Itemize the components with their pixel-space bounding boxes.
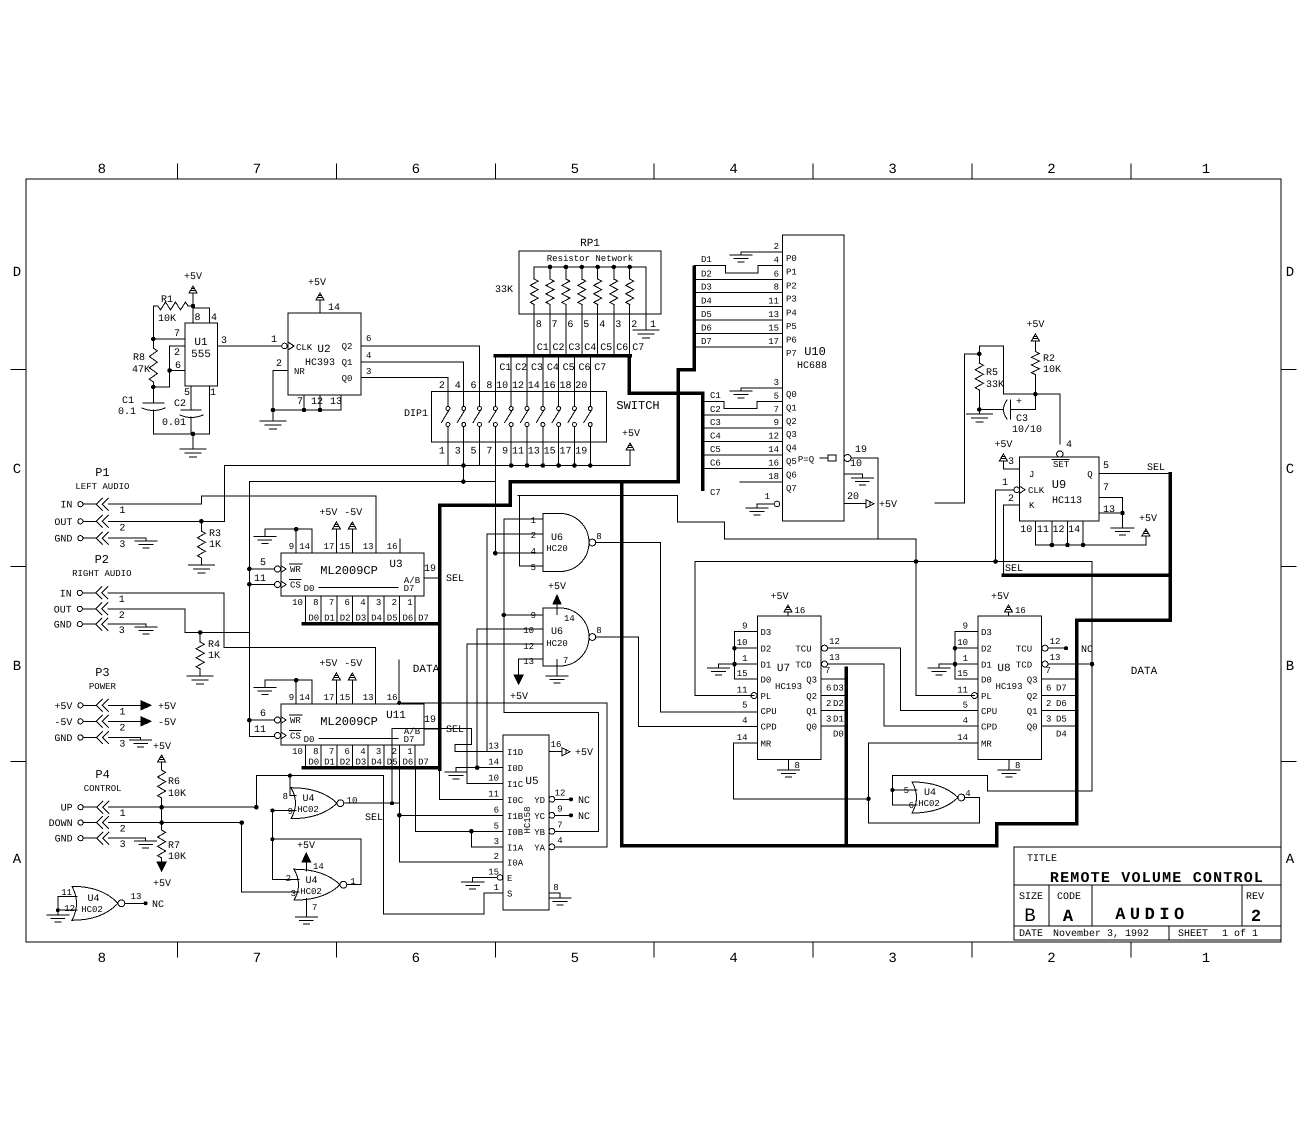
svg-text:5: 5 — [583, 320, 589, 331]
svg-text:P4: P4 — [786, 308, 797, 318]
RP1 resistor 6 — [612, 265, 617, 270]
svg-text:HC158: HC158 — [523, 806, 533, 833]
svg-text:19: 19 — [855, 445, 867, 456]
svg-text:D3: D3 — [833, 684, 844, 694]
svg-text:+5V: +5V — [1139, 514, 1157, 525]
svg-text:Resistor Network: Resistor Network — [547, 254, 633, 264]
svg-text:14: 14 — [313, 862, 324, 872]
wire U4c input from CLK net — [892, 775, 987, 777]
svg-text:10/10: 10/10 — [1012, 424, 1042, 436]
svg-text:7: 7 — [329, 747, 334, 757]
svg-text:10: 10 — [496, 381, 508, 392]
wire gate B pin2 — [272, 878, 299, 880]
svg-text:P1: P1 — [786, 268, 797, 278]
wire P1 OUT — [108, 520, 224, 522]
svg-text:15: 15 — [339, 693, 350, 703]
svg-text:P3: P3 — [95, 666, 109, 680]
svg-text:D2: D2 — [833, 699, 844, 709]
svg-text:0.1: 0.1 — [118, 407, 136, 418]
svg-text:D3: D3 — [701, 283, 712, 293]
svg-text:Q3: Q3 — [1027, 676, 1038, 686]
svg-text:6: 6 — [567, 320, 573, 331]
svg-text:16: 16 — [387, 542, 398, 552]
svg-text:D1: D1 — [833, 715, 844, 725]
thick U3 data bus — [303, 622, 440, 626]
svg-text:-5V: -5V — [344, 659, 362, 670]
svg-text:1: 1 — [210, 388, 216, 399]
svg-text:15: 15 — [768, 324, 779, 334]
svg-text:D7: D7 — [404, 735, 415, 745]
svg-text:7: 7 — [557, 820, 562, 830]
wire C7 row — [740, 481, 760, 483]
svg-text:7: 7 — [297, 397, 303, 408]
gate U4 latch B NOR — [294, 869, 340, 900]
svg-text:10K: 10K — [158, 314, 176, 325]
capacitor C2 — [190, 386, 192, 410]
ground RP1 pin1 — [633, 329, 659, 331]
svg-text:SEL: SEL — [446, 574, 464, 585]
svg-text:13: 13 — [1050, 653, 1061, 663]
wire U1 pin4 stub — [209, 308, 211, 323]
svg-text:R3: R3 — [209, 529, 221, 540]
svg-text:LEFT AUDIO: LEFT AUDIO — [75, 482, 129, 492]
svg-text:1: 1 — [963, 654, 968, 664]
svg-text:C2: C2 — [710, 405, 721, 415]
RP1 pin1 wire — [645, 267, 647, 322]
junction C2 bottom — [191, 432, 196, 437]
svg-text:-5V: -5V — [344, 508, 362, 519]
svg-text:4: 4 — [742, 716, 747, 726]
svg-text:P0: P0 — [786, 254, 797, 264]
svg-text:13: 13 — [363, 693, 374, 703]
svg-text:CS: CS — [290, 732, 301, 742]
svg-text:47K: 47K — [132, 365, 150, 376]
svg-text:6: 6 — [471, 381, 477, 392]
svg-text:6: 6 — [494, 805, 499, 815]
svg-text:+5V: +5V — [770, 592, 788, 603]
svg-text:1: 1 — [531, 516, 536, 526]
U2 pin13 stub — [340, 395, 342, 410]
svg-text:20: 20 — [575, 381, 587, 392]
wire U10 pin19 net — [877, 458, 879, 539]
svg-text:5: 5 — [184, 388, 190, 399]
svg-text:D2: D2 — [340, 758, 351, 768]
svg-text:R7: R7 — [168, 841, 180, 852]
thick bus horizontal y620 — [1077, 618, 1171, 622]
svg-text:14: 14 — [768, 445, 779, 455]
svg-text:I1C: I1C — [507, 780, 524, 790]
svg-text:C4: C4 — [547, 363, 559, 374]
ground under U1 — [192, 434, 194, 449]
wire WR CS net horizontal — [249, 481, 495, 483]
svg-text:1: 1 — [494, 883, 499, 893]
svg-text:9: 9 — [289, 693, 294, 703]
wire U4c output loop to MR — [966, 797, 980, 799]
wire U5 YA up — [555, 846, 607, 848]
svg-text:10K: 10K — [1043, 365, 1061, 376]
svg-text:6: 6 — [909, 801, 914, 811]
RP1 resistor 5 — [595, 265, 600, 270]
svg-text:SEL: SEL — [365, 813, 383, 824]
wire U6a pin2 — [487, 533, 543, 535]
svg-text:D0: D0 — [308, 614, 319, 624]
svg-text:HC193: HC193 — [775, 682, 802, 692]
svg-text:2: 2 — [774, 242, 779, 252]
svg-text:U10: U10 — [804, 345, 826, 359]
DIP1 switch 10 — [589, 356, 591, 392]
ground P4 — [135, 840, 157, 842]
svg-text:11: 11 — [512, 447, 524, 458]
RP1 resistor 3 — [564, 265, 569, 270]
svg-text:14: 14 — [299, 693, 310, 703]
svg-text:HC193: HC193 — [995, 682, 1022, 692]
svg-text:19: 19 — [575, 447, 587, 458]
svg-text:10K: 10K — [168, 789, 186, 800]
svg-text:Q1: Q1 — [786, 403, 797, 413]
svg-text:K: K — [1029, 501, 1035, 511]
svg-text:7: 7 — [312, 903, 317, 913]
mux U5 HC158 box — [503, 735, 549, 910]
svg-text:+5V: +5V — [879, 500, 897, 511]
svg-text:8: 8 — [194, 313, 200, 324]
DIP1 switch 3 — [479, 346, 481, 392]
svg-text:D2: D2 — [761, 645, 772, 655]
svg-text:R6: R6 — [168, 777, 180, 788]
junction R3 top — [199, 519, 204, 524]
resistor R3 — [200, 521, 202, 531]
U5 E bubble — [497, 875, 503, 881]
svg-text:9: 9 — [531, 611, 536, 621]
svg-text:RIGHT AUDIO: RIGHT AUDIO — [72, 569, 131, 579]
thick bus vertical x678 — [676, 370, 680, 482]
svg-text:TCU: TCU — [795, 645, 811, 655]
svg-text:2: 2 — [276, 359, 282, 370]
power -5V U3 pin15 — [351, 529, 353, 553]
svg-text:13: 13 — [363, 542, 374, 552]
ground P1 — [135, 540, 157, 542]
wire U11 pin16 net — [398, 660, 400, 704]
svg-text:3: 3 — [774, 378, 779, 388]
svg-text:U6: U6 — [551, 533, 563, 544]
svg-text:11: 11 — [1037, 525, 1049, 536]
junction U1 pin8 node — [191, 304, 196, 309]
capacitor C3 — [1004, 400, 1008, 419]
svg-text:12: 12 — [311, 397, 323, 408]
svg-text:Q: Q — [1087, 470, 1092, 480]
svg-text:16: 16 — [1015, 606, 1026, 616]
DIP1 switch 7 — [542, 356, 544, 392]
U3 WR bubble — [275, 566, 281, 572]
svg-text:C2: C2 — [174, 399, 186, 410]
svg-text:D1: D1 — [761, 661, 772, 671]
svg-text:D2: D2 — [340, 614, 351, 624]
resistor R1 — [153, 305, 158, 307]
wire U2 ground rail — [273, 409, 341, 411]
svg-text:D2: D2 — [981, 645, 992, 655]
gate U4 latch A NOR — [291, 788, 337, 819]
svg-text:+5V: +5V — [510, 692, 528, 703]
wire P4 DOWN row — [109, 822, 242, 824]
U3 A/B pin19 stub — [424, 577, 440, 579]
wire staircase down to PL net — [878, 538, 916, 540]
svg-text:OUT: OUT — [54, 518, 72, 529]
svg-text:5: 5 — [963, 701, 968, 711]
svg-text:10: 10 — [737, 638, 748, 648]
svg-text:2: 2 — [1008, 494, 1014, 505]
svg-text:NC: NC — [152, 900, 164, 911]
svg-text:5: 5 — [471, 447, 477, 458]
svg-text:U3: U3 — [389, 559, 402, 571]
svg-text:4: 4 — [557, 836, 562, 846]
svg-text:4: 4 — [729, 162, 737, 178]
svg-text:12: 12 — [768, 432, 779, 442]
wire U5 E ground — [473, 877, 497, 879]
wire P1 OUT up to rail — [224, 466, 226, 522]
svg-text:4: 4 — [360, 598, 365, 608]
counter U7 HC193 box — [758, 616, 822, 760]
RP1 common bus — [534, 266, 646, 268]
svg-text:-5V: -5V — [158, 718, 176, 729]
svg-text:5: 5 — [742, 701, 747, 711]
svg-text:+5V: +5V — [575, 748, 593, 759]
svg-text:R8: R8 — [133, 353, 145, 364]
svg-text:8: 8 — [596, 532, 601, 542]
svg-text:4: 4 — [729, 951, 737, 967]
svg-text:C3: C3 — [1016, 414, 1028, 425]
svg-text:10: 10 — [347, 796, 358, 806]
svg-text:NC: NC — [1081, 645, 1093, 656]
svg-text:C3: C3 — [710, 418, 721, 428]
DIP1 switch 4 — [494, 356, 496, 392]
svg-text:+5V: +5V — [622, 429, 640, 440]
svg-text:B: B — [1286, 659, 1294, 675]
arrow R7 to +5V — [157, 862, 166, 871]
ground U9 pin13 — [1122, 513, 1124, 528]
junction R4 top — [198, 630, 203, 635]
junction MR net — [866, 797, 871, 802]
svg-text:14: 14 — [528, 381, 540, 392]
border column ticks top — [177, 164, 179, 179]
svg-text:16: 16 — [768, 458, 779, 468]
svg-text:D7: D7 — [701, 337, 712, 347]
svg-text:3: 3 — [119, 540, 125, 551]
svg-text:Q0: Q0 — [1027, 722, 1038, 732]
svg-text:YD: YD — [534, 796, 545, 806]
svg-text:3: 3 — [494, 837, 499, 847]
svg-text:1: 1 — [1002, 478, 1008, 489]
svg-text:4: 4 — [211, 313, 217, 324]
svg-text:Q3: Q3 — [806, 676, 817, 686]
svg-text:6: 6 — [412, 951, 420, 967]
svg-text:16: 16 — [795, 606, 806, 616]
wire DOWN to gate B pin3 — [239, 820, 244, 825]
svg-text:16: 16 — [387, 693, 398, 703]
RP1 resistor 4 — [580, 265, 585, 270]
svg-text:11: 11 — [957, 686, 968, 696]
svg-text:I1A: I1A — [507, 843, 524, 853]
wire U4c inputs — [892, 789, 917, 791]
svg-text:UP: UP — [61, 804, 73, 815]
svg-text:CS: CS — [290, 581, 301, 591]
junction NR rail — [271, 408, 276, 413]
svg-text:7: 7 — [486, 447, 492, 458]
thick bus C-column vertical — [701, 393, 705, 489]
power +5V U11 pin17 — [335, 680, 337, 704]
svg-text:S: S — [507, 890, 512, 900]
wire D1 row step — [694, 265, 725, 267]
svg-text:ML2009CP: ML2009CP — [320, 564, 378, 578]
svg-text:6: 6 — [260, 709, 266, 720]
svg-text:DATA: DATA — [413, 664, 440, 676]
svg-text:12: 12 — [1050, 637, 1061, 647]
svg-text:SIZE: SIZE — [1019, 892, 1043, 903]
svg-text:D7: D7 — [418, 758, 429, 768]
thick bus down from RP1 bus — [627, 356, 631, 394]
svg-text:SEL: SEL — [1005, 564, 1023, 575]
resistor R2 — [1034, 341, 1036, 352]
svg-text:2: 2 — [120, 825, 126, 836]
svg-text:HC688: HC688 — [797, 361, 827, 372]
svg-text:1: 1 — [1202, 162, 1210, 178]
wire R1 left to pin7 — [152, 306, 154, 339]
gate U4 pin13 NOR — [72, 886, 118, 920]
U10 G enable pin1 — [774, 501, 780, 507]
border frame — [26, 179, 1281, 942]
svg-text:C6: C6 — [616, 343, 628, 354]
U3 CS bubble — [275, 582, 281, 588]
svg-text:3: 3 — [120, 840, 126, 851]
svg-text:C1: C1 — [537, 343, 549, 354]
svg-text:P7: P7 — [786, 349, 797, 359]
svg-text:MR: MR — [981, 740, 992, 750]
svg-text:14: 14 — [488, 758, 499, 768]
junction R5 bottom — [977, 407, 982, 412]
svg-text:C1: C1 — [122, 396, 134, 407]
svg-text:14: 14 — [1068, 525, 1080, 536]
svg-text:10: 10 — [850, 459, 862, 470]
ground U6b pin7 — [556, 660, 558, 676]
svg-text:D1: D1 — [981, 661, 992, 671]
U8 bottom ground pin8 — [1008, 760, 1010, 771]
svg-text:1: 1 — [119, 595, 125, 606]
DAC U11 ML2009CP box — [281, 704, 424, 745]
svg-text:11: 11 — [254, 574, 266, 585]
svg-text:7: 7 — [825, 666, 830, 676]
svg-text:13: 13 — [528, 447, 540, 458]
svg-text:+5V: +5V — [297, 841, 315, 852]
svg-text:9: 9 — [742, 622, 747, 632]
wire SEL from latch up — [391, 729, 393, 804]
thick SEL horizontal y575 — [1003, 573, 1170, 577]
svg-text:I0C: I0C — [507, 796, 524, 806]
svg-text:Q1: Q1 — [1027, 707, 1038, 717]
U11 top pins — [295, 680, 297, 704]
DIP1 switch 8 — [558, 356, 560, 392]
svg-text:20: 20 — [847, 492, 859, 503]
svg-text:HC113: HC113 — [1052, 496, 1082, 507]
svg-text:REMOTE VOLUME CONTROL: REMOTE VOLUME CONTROL — [1050, 870, 1264, 887]
svg-text:4: 4 — [531, 547, 536, 557]
svg-text:19: 19 — [424, 715, 436, 726]
svg-text:D1: D1 — [324, 758, 335, 768]
svg-text:12: 12 — [829, 637, 840, 647]
svg-text:C1: C1 — [499, 363, 511, 374]
svg-text:HC20: HC20 — [546, 544, 568, 554]
svg-text:D3: D3 — [981, 628, 992, 638]
svg-text:3: 3 — [1046, 715, 1051, 725]
svg-text:4: 4 — [1066, 440, 1072, 451]
U8 D inputs grounded — [955, 631, 978, 633]
svg-text:U4: U4 — [924, 788, 936, 799]
svg-text:19: 19 — [424, 564, 436, 575]
svg-text:C6: C6 — [710, 458, 721, 468]
svg-text:U4: U4 — [302, 794, 314, 805]
svg-text:YC: YC — [534, 812, 545, 822]
svg-text:D7: D7 — [404, 584, 415, 594]
svg-text:15: 15 — [957, 669, 968, 679]
svg-text:P2: P2 — [786, 281, 797, 291]
svg-text:D4: D4 — [701, 296, 712, 306]
svg-text:C4: C4 — [584, 343, 596, 354]
svg-text:SHEET: SHEET — [1178, 929, 1208, 940]
svg-text:P1: P1 — [95, 466, 109, 480]
ground under R5 — [978, 410, 980, 415]
svg-text:7: 7 — [1046, 666, 1051, 676]
wire pin2-pin6 link — [170, 345, 185, 347]
ground I0D — [455, 768, 457, 772]
svg-text:12: 12 — [64, 904, 75, 914]
U8 TCU NC — [1048, 647, 1066, 649]
svg-text:4: 4 — [963, 716, 968, 726]
svg-text:TCU: TCU — [1016, 645, 1032, 655]
svg-text:U9: U9 — [1052, 478, 1066, 492]
junction CLK net — [993, 559, 998, 564]
svg-text:Q5: Q5 — [786, 457, 797, 467]
svg-text:1: 1 — [271, 335, 277, 346]
wire P1 IN to U3 pin13 — [108, 503, 201, 505]
svg-text:CONTROL: CONTROL — [84, 784, 122, 794]
svg-text:B: B — [13, 659, 21, 675]
wire U1 pin7 — [153, 338, 185, 340]
ground U4 gate D — [57, 910, 59, 915]
svg-text:2: 2 — [1046, 699, 1051, 709]
wire YA net horizontal — [399, 702, 607, 704]
svg-text:CODE: CODE — [1057, 892, 1081, 903]
svg-text:8: 8 — [313, 747, 318, 757]
ground at U10 Q0 — [741, 387, 760, 389]
svg-text:8: 8 — [486, 381, 492, 392]
svg-text:Q2: Q2 — [342, 342, 353, 352]
wire R5 left net — [965, 353, 980, 355]
svg-text:6: 6 — [345, 747, 350, 757]
power -5V U11 pin15 — [351, 680, 353, 704]
svg-text:YA: YA — [534, 843, 545, 853]
svg-text:13: 13 — [1103, 505, 1115, 516]
svg-text:2: 2 — [119, 723, 125, 734]
svg-text:6: 6 — [366, 334, 371, 344]
wires C2-C6 rows — [703, 414, 761, 416]
wire U5 I1A — [470, 831, 472, 847]
svg-text:2: 2 — [119, 611, 125, 622]
svg-text:I0D: I0D — [507, 764, 523, 774]
svg-text:7: 7 — [329, 598, 334, 608]
junction R2 bottom — [1033, 392, 1038, 397]
svg-text:14: 14 — [299, 542, 310, 552]
U7 PL bubble — [751, 693, 757, 699]
svg-text:13: 13 — [523, 657, 534, 667]
svg-text:8: 8 — [536, 320, 542, 331]
wire U6a output to U7 CPU — [596, 542, 661, 544]
